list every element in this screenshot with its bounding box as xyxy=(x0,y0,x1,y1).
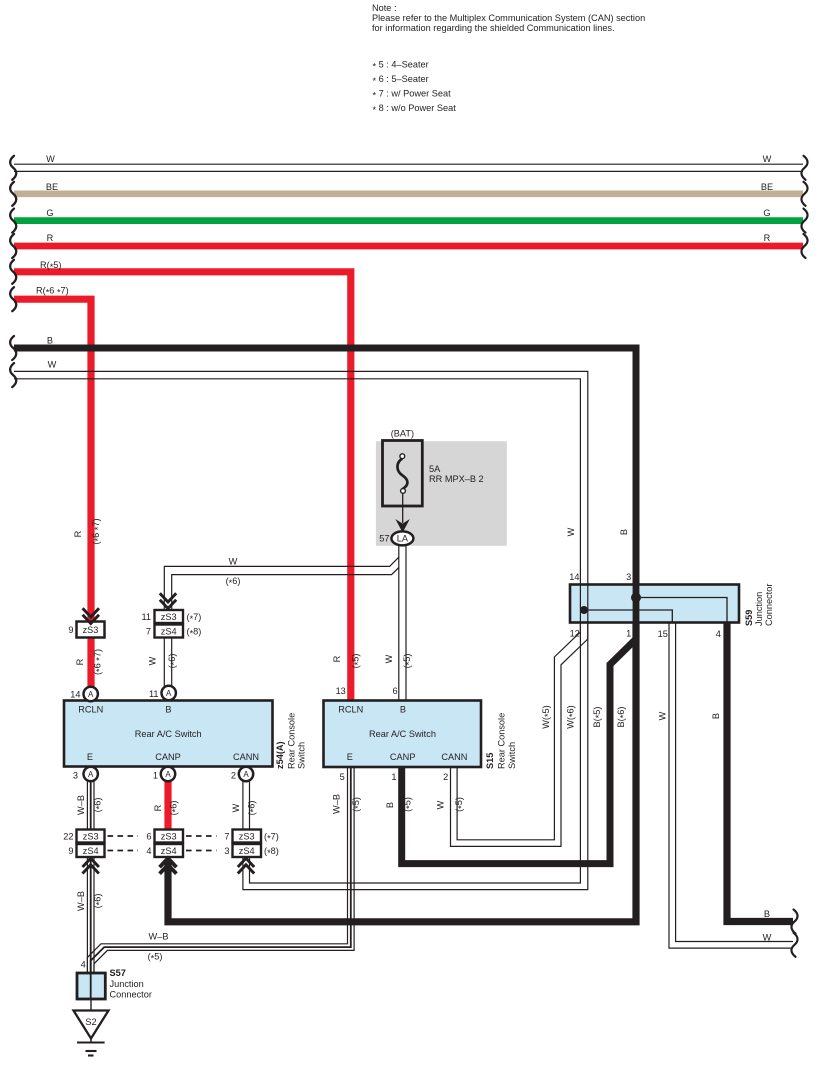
wire B S59 pin 4 to bottom right xyxy=(727,623,793,922)
svg-text:S15: S15 xyxy=(485,753,495,769)
label S57 Junction Connector xyxy=(110,979,152,1000)
wire B(*5) S59 pin 1 to S15 CANP pin 1 xyxy=(402,626,636,864)
connector 9 zS3 upper (z54A pin 14 wire) xyxy=(77,622,105,638)
pin circle A z54A pin 14 xyxy=(84,687,98,701)
connector 6 zS3 / 4 zS4 lower col2 xyxy=(155,830,184,858)
svg-text:W–B: W–B xyxy=(76,891,86,911)
wire S59 internal B tap to pin 4 xyxy=(636,598,727,623)
svg-text:(*5): (*5) xyxy=(402,797,414,812)
wire W(*6) z54A pin 2 to connector zS3 pin 7 xyxy=(243,781,250,831)
ground S2 triangle xyxy=(74,1011,109,1039)
chevron arrow below col1 connector xyxy=(83,858,99,873)
svg-text:B: B xyxy=(764,909,770,919)
svg-text:7: 7 xyxy=(224,832,229,842)
svg-text:zS3: zS3 xyxy=(161,832,177,842)
junction connector S57 box xyxy=(77,973,105,999)
wire R bus xyxy=(14,243,803,250)
wire BE bus xyxy=(14,191,803,198)
svg-text:A: A xyxy=(165,770,171,779)
junction dot S59 on W xyxy=(580,606,588,614)
svg-text:zS3: zS3 xyxy=(83,625,99,635)
svg-text:(*6): (*6) xyxy=(93,798,105,813)
chevron arrow below col3 connector xyxy=(238,858,254,873)
wire B through S59 pin 3 to pin 1 xyxy=(633,585,640,623)
svg-text:Switch: Switch xyxy=(507,742,517,769)
label R vertical (*6 *7) upper xyxy=(73,518,103,544)
svg-text:S2: S2 xyxy=(85,1017,96,1027)
svg-text:(*5): (*5) xyxy=(454,797,466,812)
chevron arrow on R(*6 *7) wire xyxy=(83,608,99,623)
svg-text:CANP: CANP xyxy=(390,752,416,762)
svg-text:S57: S57 xyxy=(110,968,126,978)
connector 22 zS3 / 9 zS4 lower col1 xyxy=(77,830,105,858)
svg-text:W–B: W–B xyxy=(149,932,169,942)
label B below S15 pin 1 xyxy=(385,797,414,812)
svg-text:z54(A): z54(A) xyxy=(275,741,285,769)
svg-text:13: 13 xyxy=(336,686,346,696)
svg-text:* 8 : w/o Power Seat: * 8 : w/o Power Seat xyxy=(373,103,457,115)
svg-text:(*7): (*7) xyxy=(187,612,202,624)
svg-text:R: R xyxy=(153,804,163,811)
svg-text:W: W xyxy=(384,654,394,663)
svg-text:Switch: Switch xyxy=(297,742,307,769)
svg-text:(*6): (*6) xyxy=(226,576,241,588)
wire W through S59 pin 14 to pin 12 xyxy=(580,585,587,623)
continuation squiggle W bus left xyxy=(10,156,16,387)
svg-text:W: W xyxy=(763,154,772,164)
wire R(*6) z54A pin 1 to connector zS3 pin 6 xyxy=(164,781,171,831)
svg-text:6: 6 xyxy=(146,832,151,842)
svg-text:B: B xyxy=(165,705,171,715)
label W-B below S15 pin 5 xyxy=(332,794,364,814)
svg-text:W–B: W–B xyxy=(76,795,86,815)
svg-text:R: R xyxy=(332,655,342,662)
svg-text:W(*6): W(*6) xyxy=(565,705,577,728)
wire S57 to ground xyxy=(90,999,92,1011)
svg-text:BE: BE xyxy=(761,182,773,192)
svg-text:W: W xyxy=(229,557,238,567)
svg-text:Connector: Connector xyxy=(764,584,774,626)
svg-text:* 7 : w/ Power Seat: * 7 : w/ Power Seat xyxy=(373,89,452,101)
svg-text:CANP: CANP xyxy=(155,752,181,762)
svg-text:W: W xyxy=(566,527,576,536)
svg-text:zS3: zS3 xyxy=(83,832,99,842)
note text block xyxy=(372,3,645,33)
svg-text:57: 57 xyxy=(379,534,389,544)
svg-text:zS3: zS3 xyxy=(161,612,177,622)
svg-text:G: G xyxy=(46,208,53,218)
wire G bus xyxy=(14,217,803,224)
svg-text:11: 11 xyxy=(141,612,151,622)
svg-text:LA: LA xyxy=(397,534,409,544)
pin circle A z54A pin 11 xyxy=(162,686,176,700)
label W-B below col1 chevron xyxy=(76,891,105,911)
label W vertical above z54A pin 11 xyxy=(148,654,180,669)
svg-text:A: A xyxy=(166,689,172,698)
svg-text:W(*5): W(*5) xyxy=(541,705,553,728)
wire W-B(*5) S15 pin 5 to S57 xyxy=(87,767,354,973)
svg-text:RR MPX–B 2: RR MPX–B 2 xyxy=(429,474,484,484)
label S59 Junction Connector xyxy=(754,584,774,626)
svg-text:(*7): (*7) xyxy=(264,832,279,844)
svg-text:CANN: CANN xyxy=(233,752,259,762)
svg-text:15: 15 xyxy=(658,629,668,639)
node LA oval xyxy=(391,531,413,545)
svg-text:(*5): (*5) xyxy=(148,952,163,964)
svg-text:7: 7 xyxy=(146,627,151,637)
svg-text:R: R xyxy=(764,233,771,243)
svg-text:Rear Console: Rear Console xyxy=(497,713,507,769)
wire R(*6 *7) down to z54A xyxy=(14,299,91,689)
svg-text:CANN: CANN xyxy=(441,752,467,762)
fuse RR MPX-B 2 xyxy=(383,441,423,507)
continuation squiggle bottom right W xyxy=(791,933,797,957)
svg-text:W–B: W–B xyxy=(332,794,342,814)
svg-text:Junction: Junction xyxy=(754,592,764,626)
svg-text:Junction: Junction xyxy=(110,979,144,989)
label R below z54A pin 1 xyxy=(153,801,181,816)
legend *5 *6 *7 *8 xyxy=(373,60,457,116)
svg-text:5A: 5A xyxy=(429,464,441,474)
svg-text:12: 12 xyxy=(570,629,580,639)
junction connector S59 box xyxy=(570,585,739,623)
wire W(*6) S59 pin 12 to connector zS4 pin 3 xyxy=(243,623,588,890)
svg-text:zS3: zS3 xyxy=(239,832,255,842)
svg-text:Rear A/C Switch: Rear A/C Switch xyxy=(135,729,202,739)
label S15 pin numbers xyxy=(336,686,449,782)
svg-text:W: W xyxy=(763,932,772,942)
label S15 box pins and title xyxy=(338,705,467,763)
svg-text:(*6): (*6) xyxy=(169,801,181,816)
svg-text:E: E xyxy=(347,752,353,762)
svg-text:R: R xyxy=(47,233,54,243)
wire R(*5) to S15 RCLN xyxy=(14,272,351,700)
arrow into node LA xyxy=(395,519,409,533)
svg-text:W: W xyxy=(48,360,57,370)
svg-text:Please refer to the Multiplex: Please refer to the Multiplex Communicat… xyxy=(372,13,645,23)
svg-text:(*8): (*8) xyxy=(187,627,202,639)
label W vertical above S15 pin 6 xyxy=(384,654,414,669)
svg-text:(*6 *7): (*6 *7) xyxy=(91,518,103,544)
label W below z54A pin 2 xyxy=(231,801,259,816)
svg-text:14: 14 xyxy=(70,690,80,700)
wire B(*6) S59 pin 1 to connector zS4 pin 4 xyxy=(168,623,636,922)
svg-text:W: W xyxy=(231,803,241,812)
svg-text:* 6 : 5–Seater: * 6 : 5–Seater xyxy=(373,74,429,86)
chevron arrow on W(*6) wire xyxy=(160,593,176,608)
svg-text:W: W xyxy=(657,711,667,720)
svg-text:B: B xyxy=(47,336,53,346)
rear A/C switch z54(A) box xyxy=(64,701,273,767)
label W-B below z54A pin 3 xyxy=(76,795,105,815)
svg-text:R: R xyxy=(75,658,85,665)
svg-text:RCLN: RCLN xyxy=(78,705,103,715)
svg-text:B: B xyxy=(619,529,629,535)
svg-text:(*5): (*5) xyxy=(351,654,363,669)
wire S59 internal W tap to pin 15 xyxy=(584,610,672,623)
wire fuse output to node LA xyxy=(402,493,404,523)
svg-text:zS4: zS4 xyxy=(83,846,99,856)
svg-text:A: A xyxy=(88,770,94,779)
svg-text:6: 6 xyxy=(392,686,397,696)
svg-text:3: 3 xyxy=(626,572,631,582)
svg-text:B(*6): B(*6) xyxy=(616,707,628,728)
svg-text:1: 1 xyxy=(391,772,396,782)
chevron arrow below col2 connector (thick B) xyxy=(160,858,177,873)
wire W bus 2 to S59 pin 14 xyxy=(14,371,588,584)
svg-text:zS4: zS4 xyxy=(161,846,177,856)
svg-text:9: 9 xyxy=(68,625,73,635)
rear A/C switch S15 box xyxy=(324,701,482,768)
wire W(*6) branch from LA wire to z54A pin 11 xyxy=(164,557,398,686)
label R vertical above z54A pin 14 xyxy=(75,649,105,675)
label S15 Rear Console Switch xyxy=(497,713,518,769)
svg-text:Rear A/C Switch: Rear A/C Switch xyxy=(369,729,436,739)
svg-text:B: B xyxy=(400,705,406,715)
svg-text:4: 4 xyxy=(716,629,721,639)
svg-text:4: 4 xyxy=(81,960,86,970)
svg-text:1: 1 xyxy=(153,771,158,781)
junction dot S59 on B xyxy=(631,593,641,603)
continuation squiggle bottom right B xyxy=(791,910,797,934)
svg-text:W: W xyxy=(148,656,158,665)
dashed link zS3 row xyxy=(108,835,217,837)
svg-text:11: 11 xyxy=(149,689,159,699)
svg-text:(*5): (*5) xyxy=(402,654,414,669)
svg-text:2: 2 xyxy=(231,771,236,781)
label S59 pin numbers xyxy=(569,572,721,639)
svg-text:B: B xyxy=(385,802,395,808)
wire W(*5) S59 pin 12 to S15 CANN pin 2 xyxy=(451,623,588,847)
svg-text:5: 5 xyxy=(340,772,345,782)
svg-text:(*8): (*8) xyxy=(264,846,279,858)
svg-text:E: E xyxy=(87,752,93,762)
svg-text:A: A xyxy=(88,690,94,699)
pin circle A z54A pin 3 xyxy=(84,767,98,781)
svg-text:W: W xyxy=(46,154,55,164)
connector 11 zS3 / 7 zS4 upper (z54A pin 11 wire) xyxy=(155,610,184,638)
svg-text:A: A xyxy=(243,770,249,779)
svg-text:RCLN: RCLN xyxy=(338,705,363,715)
wire W bus top horizontal xyxy=(14,164,803,171)
svg-text:B(*5): B(*5) xyxy=(592,707,604,728)
svg-text:(*6 *7): (*6 *7) xyxy=(93,649,105,675)
wire B bus to S59 pin 3 xyxy=(14,348,636,585)
svg-text:zS4: zS4 xyxy=(239,846,255,856)
pin circle A z54A pin 2 xyxy=(239,767,253,781)
svg-text:* 5 : 4–Seater: * 5 : 4–Seater xyxy=(373,60,429,72)
svg-text:4: 4 xyxy=(146,846,151,856)
svg-text:2: 2 xyxy=(443,772,448,782)
svg-text:9: 9 xyxy=(68,846,73,856)
svg-text:3: 3 xyxy=(73,771,78,781)
svg-text:(*6): (*6) xyxy=(93,894,105,909)
pin circle A z54A pin 1 xyxy=(161,767,175,781)
ground symbol bars xyxy=(77,1039,105,1056)
svg-text:BE: BE xyxy=(46,182,58,192)
label W below S15 pin 2 xyxy=(435,797,466,812)
svg-text:1: 1 xyxy=(626,629,631,639)
svg-text:Rear Console: Rear Console xyxy=(287,713,297,769)
wire W from LA to S15 pin 6 xyxy=(399,546,406,701)
svg-text:G: G xyxy=(763,208,770,218)
label z54A box pins and title xyxy=(78,705,259,763)
continuation squiggle right top xyxy=(801,156,807,258)
svg-text:B: B xyxy=(711,713,721,719)
wire W-B z54A pin 3 to S57 xyxy=(87,781,94,973)
label R vertical above S15 pin 13 xyxy=(332,654,363,669)
svg-text:(*5): (*5) xyxy=(351,797,363,812)
dashed link zS4 row xyxy=(108,850,217,852)
svg-text:22: 22 xyxy=(63,832,73,842)
connector 7 zS3 / 3 zS4 lower col3 xyxy=(233,830,262,858)
svg-text:Note :: Note : xyxy=(372,3,397,13)
svg-text:(BAT): (BAT) xyxy=(391,429,414,439)
svg-text:R: R xyxy=(73,530,83,537)
svg-text:S59: S59 xyxy=(744,610,754,626)
fuse block background xyxy=(376,441,507,546)
svg-text:zS4: zS4 xyxy=(161,627,177,637)
svg-text:14: 14 xyxy=(569,572,579,582)
svg-text:for information regarding the: for information regarding the shielded C… xyxy=(372,23,615,33)
wire W S59 pin 15 to bottom right xyxy=(669,623,793,949)
label z54A Rear Console Switch xyxy=(287,713,307,769)
svg-text:(*6): (*6) xyxy=(247,801,259,816)
svg-text:W: W xyxy=(435,800,445,809)
svg-text:3: 3 xyxy=(224,846,229,856)
svg-text:(*6): (*6) xyxy=(167,654,179,669)
svg-text:Connector: Connector xyxy=(110,990,152,1000)
